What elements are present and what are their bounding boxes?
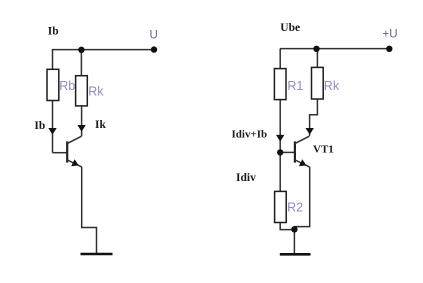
current arrow Ib [48,128,56,135]
wire emitter down lead [82,167,97,253]
svg-text:Ib: Ib [48,25,59,37]
wire ground stem [293,230,295,253]
wire emitter of VT1 down [294,167,309,227]
svg-text:Ib: Ib [34,120,45,132]
node output terminal U [151,46,157,52]
current arrow collector right [306,128,314,135]
transistor Q1 [67,136,82,167]
wire R1 top lead [279,49,281,69]
ground (left circuit) [81,253,113,256]
wire Rb top lead [52,49,54,69]
wire Rk bottom lead to collector [81,106,83,136]
resistor Rb [47,69,59,100]
resistor Rk (left circuit) [76,76,88,106]
svg-text:R1: R1 [287,79,303,93]
svg-text:Idiv+Ib: Idiv+Ib [232,129,268,141]
wire top bus right circuit [280,48,389,50]
svg-text:Ik: Ik [95,119,106,131]
ground (right circuit) [280,253,311,256]
svg-text:Rk: Rk [324,79,340,93]
resistor R1 [274,69,286,100]
svg-text:Rb: Rb [59,79,75,93]
svg-text:R2: R2 [287,201,303,215]
node emitter/R2 junction dot [291,226,297,232]
svg-text:Rk: Rk [88,84,104,98]
wire R1 bottom lead to base node [279,100,281,153]
wire Rk bottom jog to collector [310,99,318,136]
svg-text:U: U [150,30,158,42]
wire Rb bottom lead [52,101,54,153]
wire R2 bottom to ground node [280,223,294,230]
current arrow Idiv+Ib [276,135,284,142]
svg-text:Idiv: Idiv [236,172,256,184]
svg-text:VT1: VT1 [313,143,334,155]
wire base node to R2 top [279,152,281,191]
svg-text:Ube: Ube [280,22,300,34]
svg-text:+U: +U [383,29,398,41]
resistor R2 [275,191,287,222]
current arrow Ik [77,125,85,132]
wire Rk top lead right [316,49,318,68]
node base junction dot [277,149,283,155]
resistor Rk (right circuit) [312,67,324,99]
node junction dot right top [313,46,319,52]
wire base wire Q1 [53,152,68,154]
wire base wire VT1 [280,151,295,153]
node junction dot left [78,47,84,53]
node terminal +U [386,46,392,52]
transistor VT1 [295,136,310,167]
wire Rk top lead [80,50,82,76]
wire top bus left circuit [53,49,155,51]
